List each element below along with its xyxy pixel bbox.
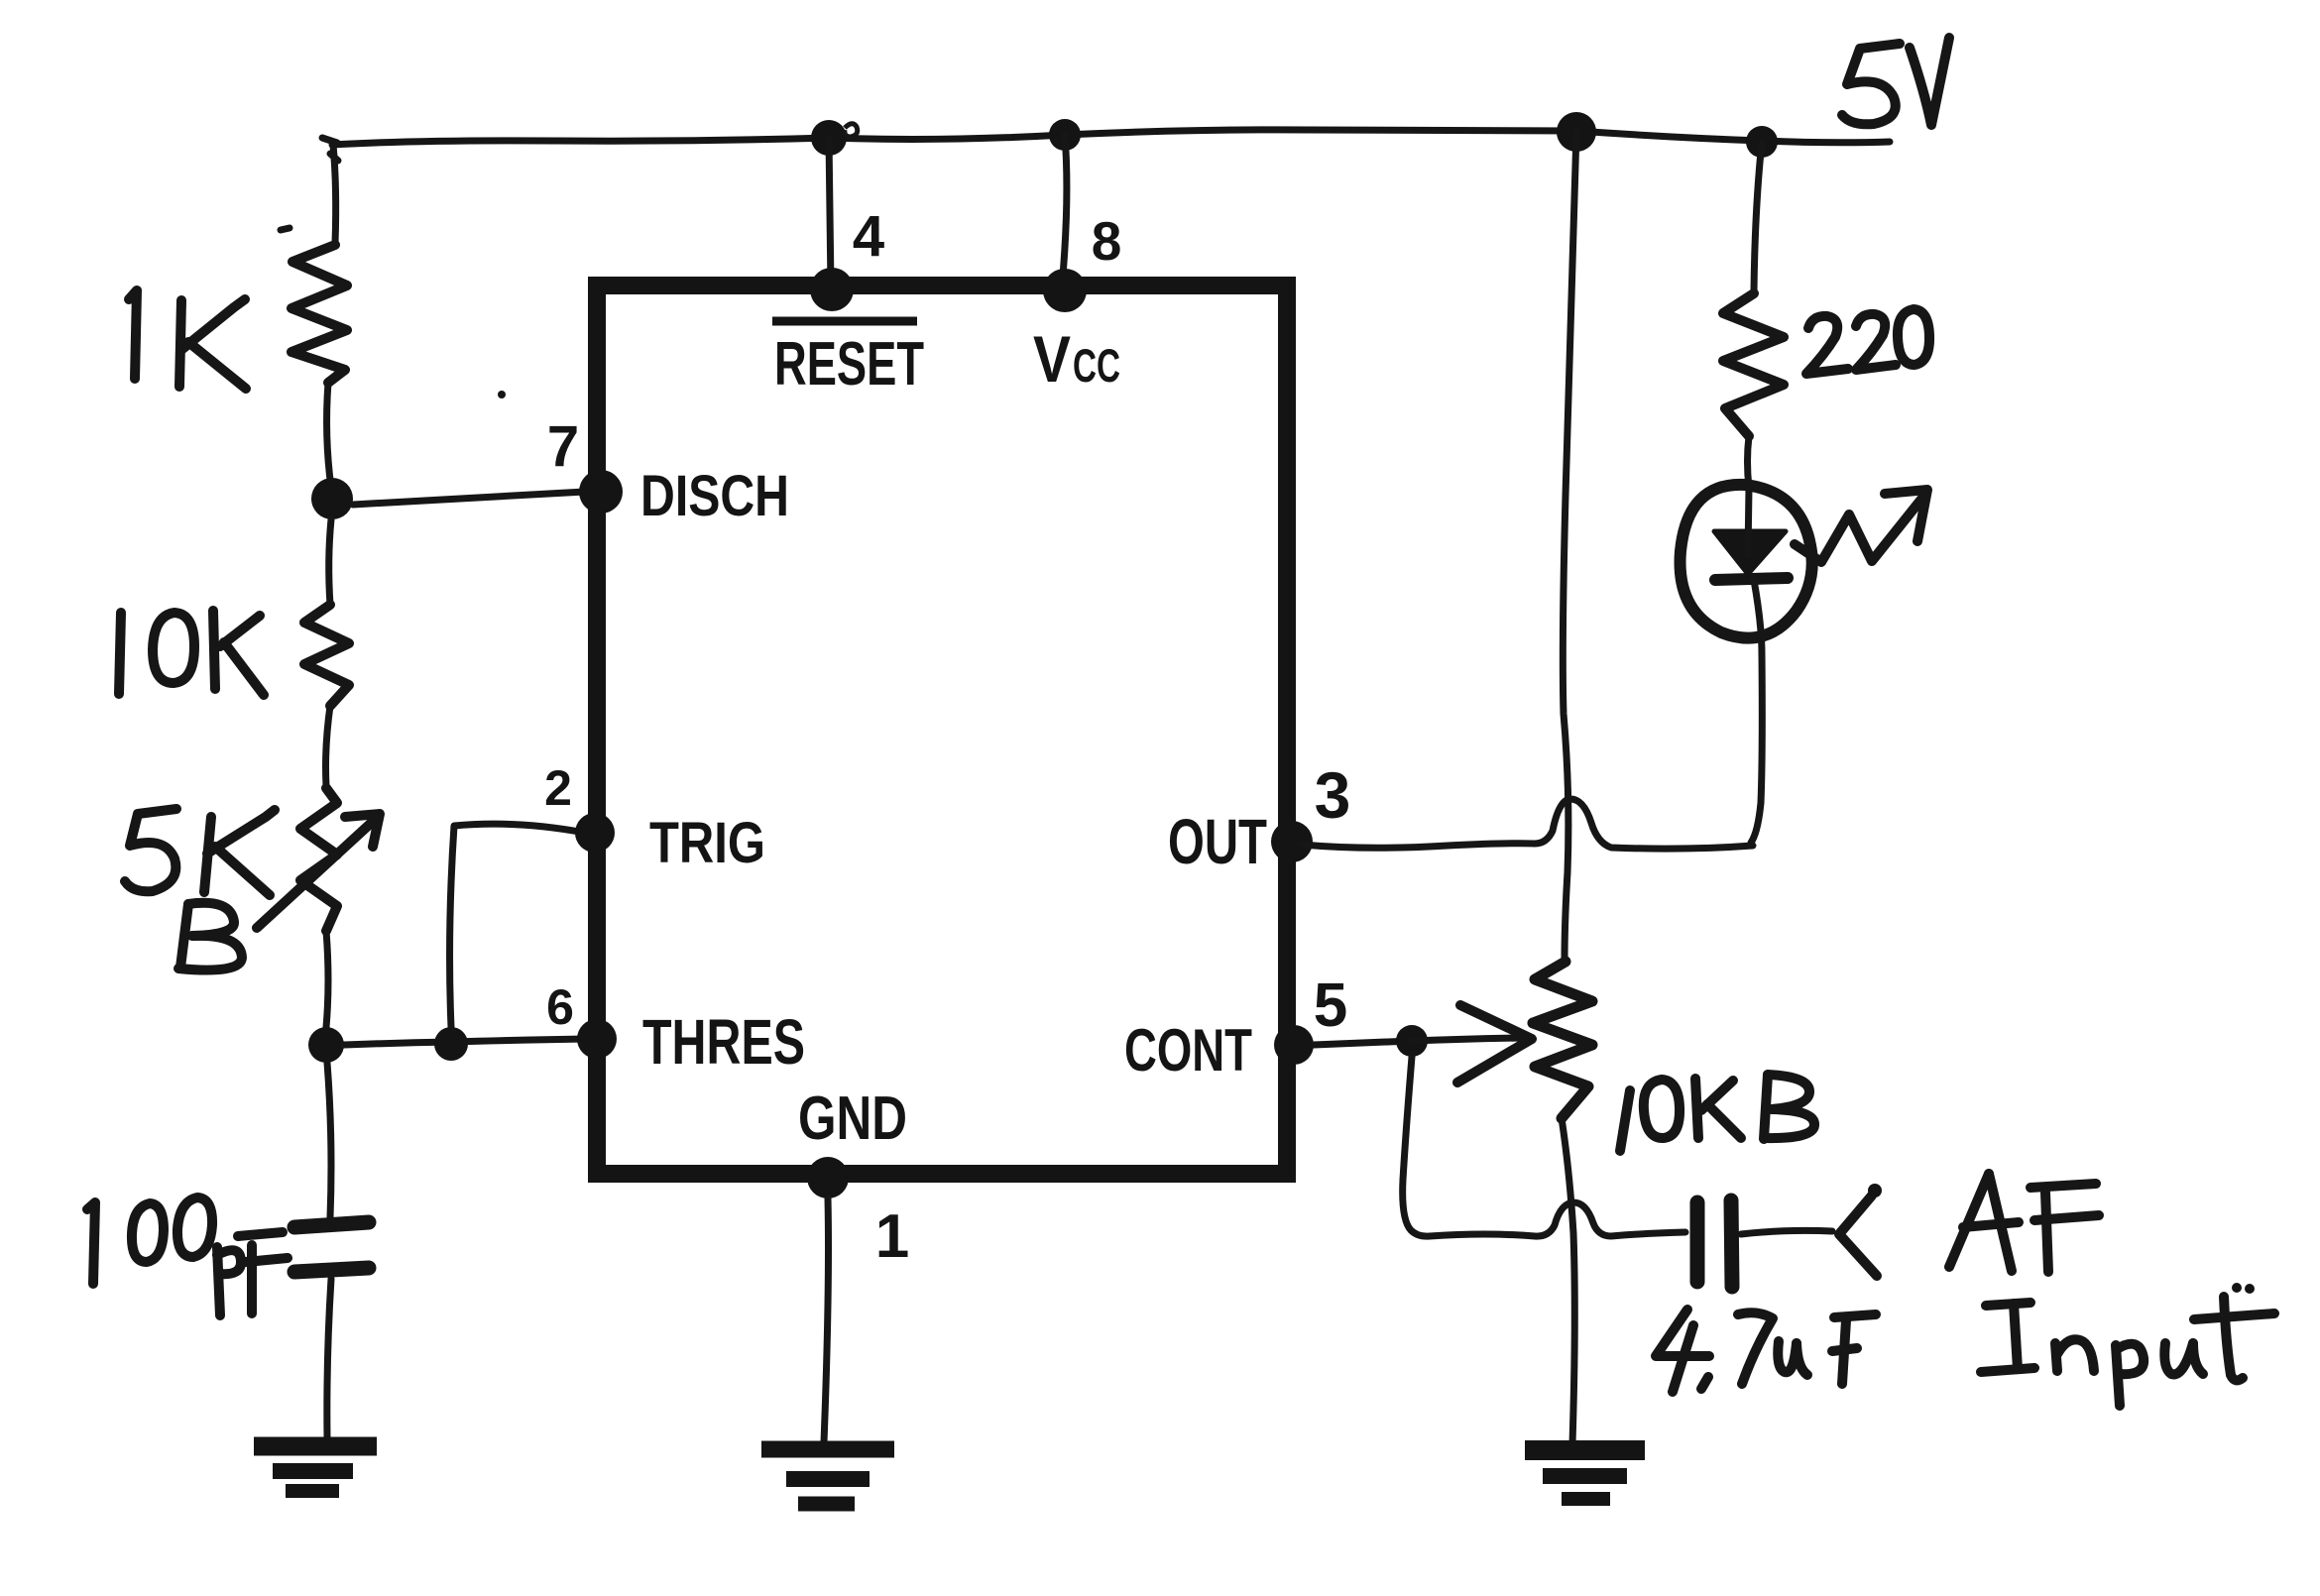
wire pin 3 OUT to LED (hops over vertical wire) [1302, 799, 1753, 849]
capacitor C1 100pF bottom plate [294, 1268, 369, 1272]
value label 10K [119, 611, 264, 695]
LED D1 internal lead [1748, 488, 1762, 654]
value label 5K [125, 809, 275, 895]
wire node C up and right to pin 2 TRIG [450, 824, 585, 1027]
LED D1 body circle [1681, 485, 1812, 638]
svg-text:6: 6 [546, 979, 574, 1035]
svg-text:5: 5 [1314, 971, 1347, 1040]
wire R3 bottom to LED top [1748, 436, 1750, 488]
capacitor C2 4.7uF left plate [1690, 1202, 1705, 1282]
potentiometer VR1 5K element [300, 788, 337, 931]
wire VR2 bottom to right ground [1562, 1118, 1574, 1443]
node A (R1/R2/DISCH junction) [311, 478, 353, 519]
node rail/RESET junction [811, 120, 847, 156]
wire long vertical (rail junction down to VR2 top) [1563, 132, 1576, 962]
ground symbol (center) [761, 1441, 894, 1458]
capacitor C1 100pF top plate [294, 1222, 369, 1227]
wire LED bottom down to OUT wire [1751, 654, 1762, 843]
RESET overline [772, 317, 917, 326]
wire VR1 bottom to node B [326, 931, 328, 1027]
VR2 wiper wire [1412, 1038, 1522, 1041]
resistor R3 220 [1723, 293, 1784, 436]
pin 1 dot [807, 1157, 849, 1198]
svg-text:THRES: THRES [642, 1006, 805, 1078]
wire node D down to AF coupling line [1403, 1057, 1430, 1236]
wire node A to pin 7 DISCH [353, 492, 585, 505]
capacitor C2 4.7uF right plate [1731, 1200, 1732, 1287]
value label 4.7uF [1656, 1310, 1876, 1392]
wire C1 bottom to left ground [327, 1279, 331, 1437]
potentiometer VR2 10KB element [1533, 962, 1592, 1118]
value label 220 [1806, 309, 1929, 374]
port label AF [1949, 1174, 2099, 1272]
svg-text:7: 7 [547, 414, 579, 479]
svg-text:V: V [1033, 322, 1071, 396]
node rail/VCC junction [1049, 119, 1081, 151]
wire node A down to R2 top [329, 519, 331, 605]
node B (VR1/THRES/C1 junction) [308, 1027, 344, 1063]
pin 2 dot [575, 813, 615, 853]
value label 100pF [87, 1197, 288, 1315]
wire pin 1 GND to center ground [824, 1198, 829, 1442]
port label Input [1981, 1283, 2274, 1406]
wire node B down to C1 top [327, 1063, 331, 1217]
svg-text:1: 1 [875, 1202, 909, 1271]
speck near 1K [281, 228, 290, 230]
wire node B to pin 6 THRES [344, 1039, 585, 1045]
value label 10KB [1620, 1075, 1814, 1151]
svg-text:CC: CC [1073, 339, 1120, 392]
LED D1 anode triangle [1714, 531, 1786, 574]
wire 5V supply rail [332, 130, 1890, 145]
VR2 wiper arrowhead [1457, 1005, 1532, 1083]
wire R2 bottom to VR1 top [326, 706, 331, 786]
svg-text:OUT: OUT [1168, 806, 1267, 877]
pin 4 dot [810, 268, 854, 311]
svg-text:8: 8 [1092, 210, 1122, 272]
LED D1 cathode bar [1715, 578, 1788, 580]
pin 6 dot [577, 1019, 617, 1059]
pen loop next to junction [845, 124, 858, 137]
node rail/220-resistor junction [1746, 126, 1778, 158]
wire R1 bottom to node A [327, 383, 331, 488]
potentiometer VR1 wiper arrow [257, 817, 378, 928]
node D (CONT/AF junction) [1396, 1025, 1428, 1057]
svg-text:GND: GND [798, 1084, 907, 1153]
wire C2 to input connector [1741, 1230, 1832, 1234]
AF input connector [1839, 1196, 1877, 1276]
svg-text:RESET: RESET [774, 330, 924, 399]
resistor R1 1K [291, 245, 347, 383]
supply label 5V [1842, 38, 1949, 125]
wire pin 4 to rail [829, 138, 831, 287]
svg-text:3: 3 [1315, 758, 1351, 832]
taper label B [178, 903, 242, 970]
speck near DISCH wire [498, 391, 506, 399]
pin 5 dot [1274, 1025, 1314, 1065]
wire rail junction down to R3 top [1754, 142, 1762, 291]
wire pin 5 CONT to node D [1314, 1041, 1412, 1045]
node C (TRIG branch junction) [434, 1027, 468, 1061]
svg-text:4: 4 [853, 204, 884, 269]
wire pin 8 to rail [1062, 135, 1067, 287]
ground symbol (right) [1525, 1440, 1645, 1460]
wire to C2 (hops over VR2 bottom wire) [1430, 1202, 1685, 1236]
pin 3 dot [1271, 821, 1313, 862]
svg-text:CONT: CONT [1124, 1017, 1252, 1083]
resistor R2 10K [304, 605, 349, 706]
wire rail down to R1 top [333, 145, 336, 243]
pin 8 dot [1043, 269, 1087, 312]
ground symbol (left) [254, 1437, 377, 1456]
pin 7 dot [579, 470, 623, 513]
svg-text:TRIG: TRIG [649, 811, 765, 875]
svg-text:DISCH: DISCH [640, 464, 789, 528]
value label 1K [129, 290, 246, 389]
node rail/right-vertical junction [1557, 112, 1596, 152]
svg-text:2: 2 [544, 760, 572, 816]
IC U1 555 timer body [597, 285, 1287, 1174]
LED light arrow [1795, 497, 1923, 562]
corner tick top-left [322, 138, 338, 161]
